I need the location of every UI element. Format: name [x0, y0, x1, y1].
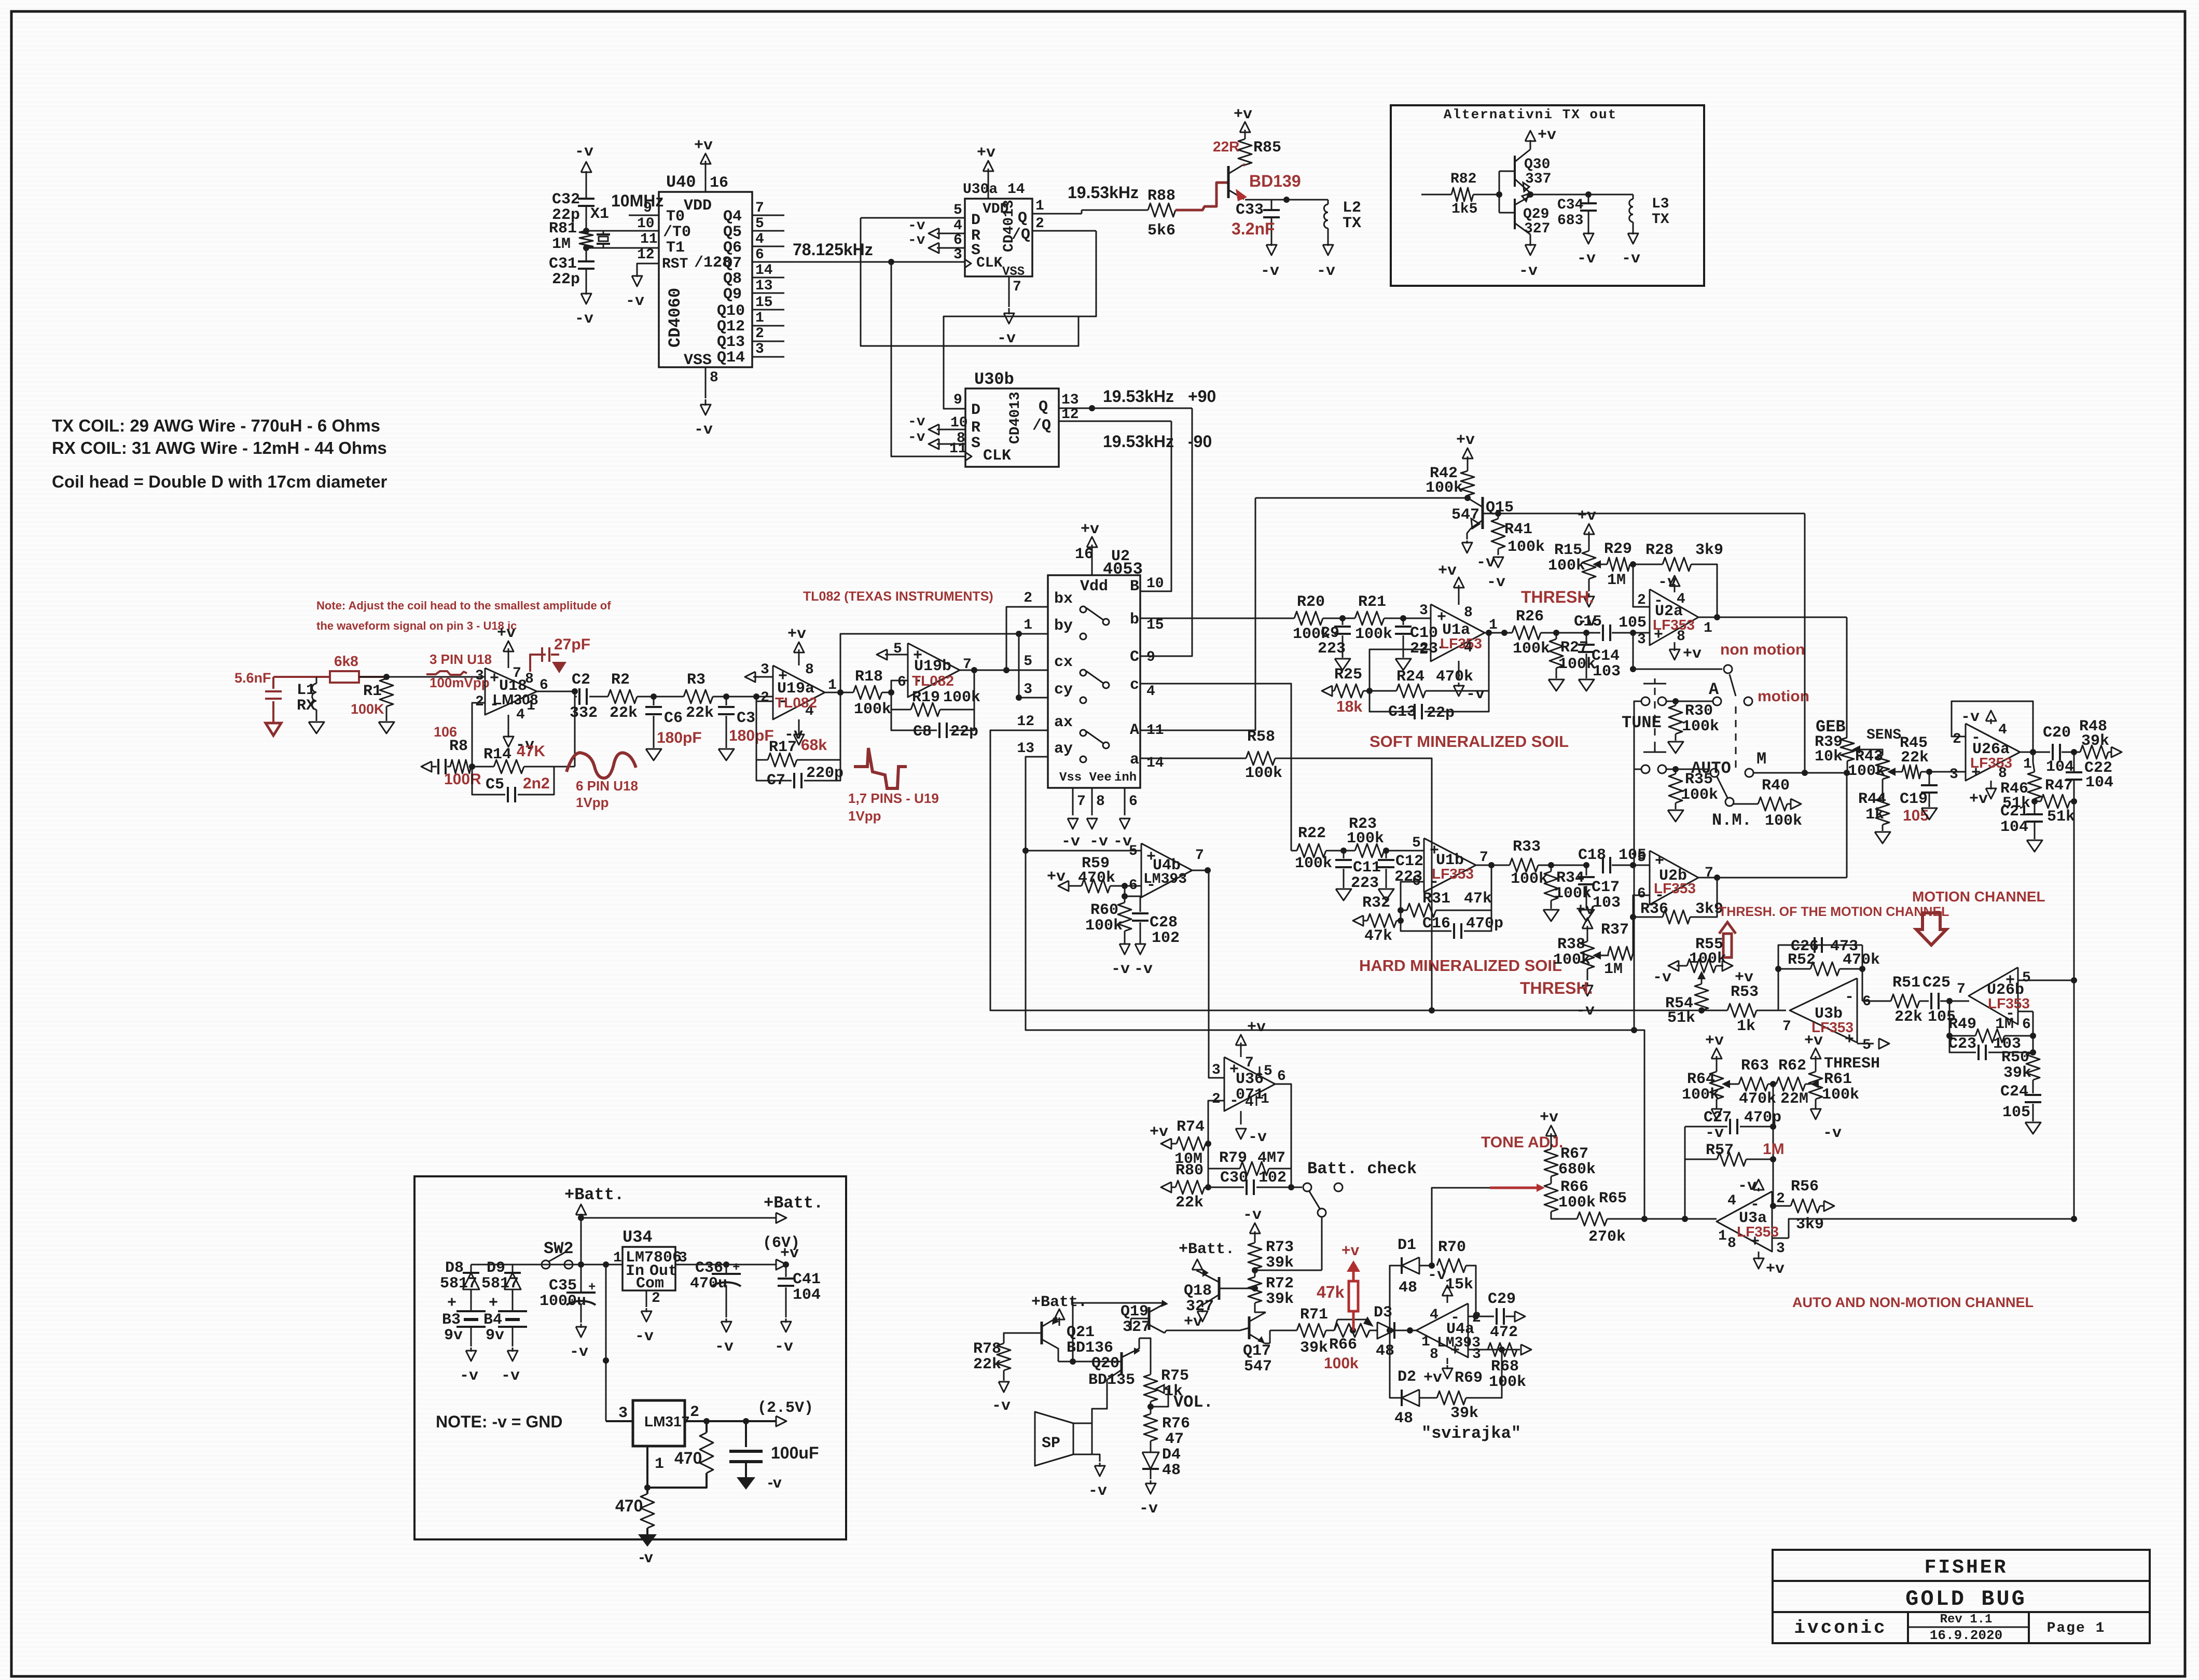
svg-text:C6: C6: [664, 710, 683, 727]
svg-text:7: 7: [1195, 848, 1204, 864]
node R34: [1548, 862, 1554, 868]
svg-text:GOLD BUG: GOLD BUG: [1905, 1587, 2027, 1612]
node R60: [1122, 883, 1128, 889]
svg-text:39k: 39k: [1266, 1254, 1294, 1272]
svg-text:22k: 22k: [1894, 1008, 1923, 1026]
svg-text:-v: -v: [997, 330, 1016, 348]
potentiometer R39 10k GEB: [1841, 738, 1854, 761]
svg-text:-v: -v: [1577, 250, 1596, 268]
svg-text:39k: 39k: [1266, 1290, 1294, 1308]
svg-text:+v: +v: [1540, 1109, 1558, 1127]
svg-text:104: 104: [2085, 774, 2113, 792]
resistor R72 39k: [1248, 1277, 1262, 1303]
svg-text:100k: 100k: [1513, 640, 1550, 658]
potentiometer R55 100k horizontal: [1687, 959, 1716, 973]
speaker SP: [1073, 1423, 1092, 1454]
svg-text:470: 470: [674, 1449, 702, 1467]
svg-text:3: 3: [1024, 682, 1032, 698]
wire R42 to Q15 base node: [1467, 495, 1469, 498]
svg-text:4M7: 4M7: [1257, 1149, 1285, 1167]
switch blade AUTO-NM: [1717, 777, 1727, 798]
switch symbols inside 4053: [1080, 606, 1086, 613]
right arrow R48 out: [2111, 747, 2122, 757]
pushbutton TUNE: [1643, 683, 1666, 685]
svg-text:39k: 39k: [1450, 1405, 1478, 1422]
svg-text:5: 5: [1024, 654, 1032, 670]
svg-text:100k: 100k: [854, 701, 891, 718]
svg-text:(6V): (6V): [763, 1234, 800, 1252]
svg-text:RX COIL: 31 AWG Wire - 12mH -: RX COIL: 31 AWG Wire - 12mH - 44 Ohms: [52, 438, 387, 457]
node cx bus: [1003, 667, 1009, 673]
red up arrow thresh: [1719, 922, 1736, 957]
op-amp U19a TL082: [773, 665, 825, 719]
svg-text:LF353: LF353: [1653, 617, 1695, 633]
svg-text:100k: 100k: [1558, 656, 1596, 673]
-v below C34: [1588, 229, 1589, 234]
svg-text:-v: -v: [908, 218, 925, 234]
wire Q20 collector to R75: [1139, 1338, 1151, 1374]
wire TUNE left down: [1634, 701, 1641, 1030]
svg-text:+v: +v: [1705, 1032, 1724, 1050]
svg-text:1: 1: [1035, 198, 1044, 214]
node C11: [1340, 848, 1347, 854]
-v below R64: [1716, 1099, 1718, 1109]
U19a input wire pin2: [756, 697, 757, 701]
svg-text:7: 7: [1013, 279, 1021, 295]
resistor R41 100k vertical: [1491, 519, 1505, 549]
svg-text:4: 4: [1430, 1307, 1439, 1323]
svg-text:R52: R52: [1788, 951, 1816, 969]
node C14: [1583, 630, 1589, 636]
svg-text:-v: -v: [575, 143, 593, 161]
svg-text:inh: inh: [1114, 771, 1137, 785]
wire A pin11 select: [1140, 498, 1255, 730]
contact motion: [1744, 697, 1752, 705]
node U4a in: [1387, 1327, 1393, 1334]
svg-text:C35: C35: [549, 1277, 577, 1295]
wire a pin14 to R58: [1140, 758, 1246, 759]
svg-text:7: 7: [1245, 1055, 1254, 1071]
svg-text:+v: +v: [1234, 106, 1252, 123]
svg-text:2n2: 2n2: [523, 775, 550, 792]
op-amp U36 071: [1224, 1057, 1275, 1111]
svg-text:ax: ax: [1054, 714, 1073, 731]
wire U4b out down to U36: [1209, 870, 1224, 1078]
svg-text:Q4: Q4: [723, 208, 742, 226]
svg-text:1M: 1M: [552, 235, 571, 253]
svg-text:105: 105: [1903, 807, 1929, 824]
node 78kHz junction: [888, 259, 894, 265]
svg-text:5817: 5817: [481, 1275, 519, 1293]
capacitor C17 103: [1586, 865, 1587, 876]
capacitor C35 1000u: [578, 1261, 584, 1268]
svg-text:VOL.: VOL.: [1173, 1393, 1213, 1412]
svg-text:14: 14: [755, 262, 773, 279]
svg-text:1M: 1M: [1763, 1141, 1785, 1158]
resistor R48 39k: [2080, 745, 2108, 759]
capacitor C30 102: [1208, 1187, 1244, 1188]
svg-text:R65: R65: [1599, 1190, 1627, 1207]
+v above U18 pin7: [508, 648, 509, 668]
svg-text:-v: -v: [460, 1367, 478, 1385]
svg-text:5: 5: [1129, 843, 1138, 859]
resistor R8 100R: [450, 760, 471, 773]
resistor R20 100k: [1294, 612, 1323, 625]
svg-text:1: 1: [828, 677, 837, 693]
svg-text:LF353: LF353: [1432, 866, 1474, 882]
op-amp U2a LF353 inverted: [1650, 589, 1698, 645]
-v below Q29: [1530, 240, 1531, 246]
power supply box outline: [414, 1176, 846, 1539]
U30b /Q pin12 -90 wire: [1059, 421, 1171, 422]
svg-text:TX: TX: [1652, 212, 1669, 228]
svg-text:3: 3: [618, 1405, 628, 1422]
contact AUTO pole: [1710, 769, 1719, 777]
svg-text:2: 2: [755, 326, 764, 342]
transistor Q BD139: [1227, 166, 1230, 198]
resistor R59 470k: [1058, 881, 1069, 891]
svg-text:7: 7: [1705, 865, 1713, 881]
IC U2 4053: [1048, 575, 1140, 788]
svg-text:R36: R36: [1640, 900, 1668, 918]
svg-text:Q18: Q18: [1184, 1282, 1212, 1300]
svg-text:+v: +v: [1683, 645, 1702, 663]
svg-text:BD136: BD136: [1067, 1339, 1113, 1357]
capacitor C18 105: [1602, 857, 1604, 873]
svg-text:47k: 47k: [1317, 1283, 1345, 1301]
svg-text:C5: C5: [486, 776, 504, 794]
svg-text:+v: +v: [1766, 1260, 1785, 1278]
capacitor C24 105: [2032, 1080, 2034, 1093]
U3a pin2 wire: [1772, 1205, 1791, 1207]
svg-text:-v: -v: [1317, 262, 1335, 280]
resistor R73 39k: [1248, 1243, 1262, 1269]
svg-text:+Batt.: +Batt.: [564, 1185, 624, 1204]
svg-text:TX COIL: 29 AWG Wire - 770uH -: TX COIL: 29 AWG Wire - 770uH - 6 Ohms: [52, 416, 380, 435]
-v below C35: [580, 1324, 582, 1328]
svg-text:2: 2: [652, 1290, 660, 1307]
svg-text:2: 2: [1776, 1191, 1785, 1207]
svg-text:+: +: [447, 1295, 457, 1312]
svg-text:337: 337: [1525, 171, 1551, 187]
svg-text:LF353: LF353: [1654, 880, 1696, 896]
node D1 R70: [1429, 1262, 1435, 1269]
svg-text:R76: R76: [1162, 1415, 1190, 1433]
svg-text:C16: C16: [1422, 915, 1450, 933]
svg-text:6: 6: [2022, 1017, 2031, 1033]
resistor R78 22k: [997, 1343, 1011, 1370]
svg-text:5: 5: [953, 202, 962, 218]
wire ay down to U4b pin5: [1026, 757, 1644, 1219]
node C25 out: [1946, 998, 1953, 1004]
-v above U4a: [1447, 1298, 1448, 1303]
U3a pin3 wire: [1772, 1238, 1789, 1239]
svg-text:C13: C13: [1388, 703, 1416, 721]
svg-text:100k: 100k: [1558, 1194, 1596, 1212]
svg-text:(2.5V): (2.5V): [757, 1399, 813, 1417]
svg-text:CLK: CLK: [983, 447, 1011, 465]
wire U2a out: [1698, 617, 1847, 618]
wire +90 down to 4053 C select: [1140, 408, 1192, 656]
svg-text:R51: R51: [1892, 974, 1920, 992]
U30a /Q pin2 wire: [1032, 230, 1096, 232]
capacitor 106 red: [437, 759, 439, 774]
capacitor C26 473: [1814, 937, 1816, 953]
op-amp U4b LM393: [1141, 843, 1192, 897]
svg-text:100k: 100k: [1085, 917, 1123, 935]
svg-text:the waveform signal on pi: the waveform signal on pin 3 - U18 ic: [316, 619, 517, 632]
wire TUNE to A pole: [1666, 701, 1713, 702]
svg-text:68k: 68k: [801, 737, 827, 754]
svg-text:R56: R56: [1791, 1178, 1819, 1196]
rheostat R75 1k VOL: [1144, 1374, 1157, 1401]
U19b pin5 left arrow: [885, 654, 908, 656]
svg-text:5.6nF: 5.6nF: [234, 670, 271, 686]
svg-text:1k5: 1k5: [1451, 201, 1477, 217]
switch blade A: [1730, 674, 1736, 696]
svg-text:U30b: U30b: [974, 370, 1014, 389]
rheostat R66 100k audio: [1334, 1324, 1370, 1337]
wire R66 bottom to R65: [1551, 1212, 1577, 1219]
svg-text:100k: 100k: [1295, 855, 1332, 872]
pushbutton AUTO: [1643, 752, 1666, 753]
U3b pin5 arrow: [1857, 1043, 1874, 1045]
node C3: [723, 693, 729, 700]
wire LM317 out: [685, 1420, 776, 1422]
svg-text:223: 223: [1318, 640, 1346, 658]
svg-text:22k: 22k: [1901, 749, 1929, 767]
transistor Q15 547: [1468, 498, 1482, 507]
capacitor C21 104: [2034, 801, 2036, 813]
wire feedback to next stage: [554, 766, 575, 768]
wire Q15 bus down to M row: [1802, 770, 1808, 776]
svg-text:R81: R81: [549, 220, 577, 238]
svg-text:7: 7: [1782, 1019, 1791, 1035]
capacitor C6 180pF: [653, 697, 655, 705]
svg-text:R24: R24: [1396, 668, 1424, 686]
svg-text:1000u: 1000u: [540, 1293, 586, 1310]
IC U34 LM7806: [623, 1247, 675, 1290]
svg-text:3: 3: [1419, 603, 1428, 619]
resistor R79 4M7: [1208, 1169, 1240, 1187]
wire U4b out: [1192, 870, 1208, 871]
node C17: [1583, 862, 1589, 868]
svg-text:+v: +v: [1081, 521, 1099, 538]
U19b pin6 wire: [891, 681, 908, 692]
resistor R34 100k vertical: [1544, 871, 1558, 900]
wire adj to pin1: [647, 1473, 707, 1488]
svg-text:N.M.: N.M.: [1712, 811, 1752, 830]
svg-text:R79: R79: [1219, 1149, 1247, 1167]
node R25 R24: [1366, 688, 1373, 694]
svg-text:R44: R44: [1858, 790, 1886, 808]
svg-text:/T0: /T0: [663, 224, 691, 241]
svg-text:R1: R1: [363, 683, 382, 700]
svg-text:1: 1: [2023, 756, 2032, 772]
svg-text:R75: R75: [1161, 1367, 1189, 1385]
svg-text:19.53kHz: 19.53kHz: [1103, 432, 1174, 451]
svg-text:+: +: [1750, 1233, 1760, 1251]
svg-text:15: 15: [755, 295, 773, 311]
resistor R28 3k9: [1633, 564, 1663, 565]
-v below B4: [512, 1348, 514, 1352]
svg-text:100k: 100k: [1511, 870, 1548, 888]
resistor R85 22R: [1238, 139, 1252, 165]
red wire tone wiper: [1490, 1187, 1537, 1189]
+v below U4a: [1447, 1358, 1448, 1364]
wire to R73 junction: [1255, 1270, 1322, 1271]
svg-text:R73: R73: [1266, 1239, 1294, 1256]
capacitor C9 223: [1342, 618, 1344, 625]
-v below U18 pin4: [508, 715, 509, 732]
svg-text:18k: 18k: [1336, 698, 1362, 715]
wire R28 node down to U2a pin2: [1633, 564, 1650, 607]
node 47k red: [1350, 1327, 1356, 1334]
svg-text:-v: -v: [1487, 574, 1505, 591]
svg-text:R: R: [971, 419, 980, 437]
-v below D4: [1150, 1480, 1152, 1484]
svg-text:-v: -v: [1622, 250, 1640, 268]
node U2b pin5: [1630, 862, 1636, 868]
U30a pin4 R -v: [937, 233, 965, 234]
+v above R61: [1815, 1056, 1817, 1072]
wire U18 out: [537, 691, 575, 692]
left arrow input 106: [421, 761, 432, 772]
-v below U36: [1240, 1111, 1242, 1124]
-v below U19a: [798, 719, 800, 735]
potentiometer R15 100k: [1582, 551, 1596, 579]
svg-text:R47: R47: [2045, 777, 2073, 795]
svg-text:1: 1: [613, 1250, 622, 1266]
diode D2 48: [1401, 1390, 1403, 1406]
svg-text:1M: 1M: [1607, 572, 1626, 589]
svg-text:TL082 (TEXAS INSTRUMENTS): TL082 (TEXAS INSTRUMENTS): [803, 589, 993, 604]
capacitor C3 180pF: [726, 697, 727, 705]
svg-text:Q12: Q12: [717, 318, 745, 336]
svg-text:100k: 100k: [1822, 1086, 1859, 1104]
U30b pin10 R -v: [937, 429, 965, 431]
svg-text:CD4013: CD4013: [1007, 392, 1024, 444]
wire U2b out: [1698, 877, 1847, 879]
diode D8 5817: [463, 1273, 479, 1289]
svg-text:C25: C25: [1923, 974, 1951, 992]
svg-text:THRESH.: THRESH.: [1520, 979, 1593, 997]
svg-text:6: 6: [953, 232, 962, 248]
wire by into pin: [1019, 633, 1048, 635]
svg-text:cy: cy: [1054, 681, 1073, 699]
svg-text:R63: R63: [1741, 1057, 1769, 1075]
svg-text:LF353: LF353: [1440, 635, 1482, 651]
svg-text:-v: -v: [1061, 833, 1080, 851]
capacitor C14 103: [1586, 633, 1587, 643]
svg-text:motion: motion: [1758, 688, 1809, 705]
U19a pin3 left arrow: [753, 676, 773, 678]
svg-text:C24: C24: [2000, 1083, 2028, 1101]
+v above R64: [1716, 1056, 1718, 1072]
capacitor C5 2n2: [472, 767, 505, 795]
svg-text:R33: R33: [1513, 838, 1541, 856]
svg-text:-v: -v: [570, 1343, 588, 1361]
ground below C9: [1335, 659, 1350, 670]
-v above U2a: [1674, 584, 1676, 592]
feedback R17 68k: [756, 701, 768, 760]
svg-text:R64: R64: [1687, 1071, 1715, 1088]
U3b feedback C26 R52: [1778, 945, 1862, 1010]
battery rail: [471, 1264, 623, 1266]
svg-text:7: 7: [513, 665, 521, 682]
svg-text:+: +: [732, 1261, 740, 1275]
svg-text:C3: C3: [737, 710, 755, 727]
wire U19a out: [825, 692, 853, 693]
right arrow C29 out: [1515, 1311, 1525, 1322]
wire U1a out: [1485, 632, 1512, 634]
ground below 470: [646, 1528, 648, 1534]
red +v above 47k: [1347, 1260, 1360, 1272]
ground below R30: [1675, 734, 1677, 741]
svg-text:-v: -v: [715, 1338, 734, 1356]
svg-text:-v: -v: [1653, 969, 1671, 987]
resistor 6k8 red box: [330, 671, 359, 683]
svg-text:CD4060: CD4060: [666, 288, 685, 348]
svg-text:47: 47: [1165, 1431, 1184, 1448]
svg-text:4: 4: [953, 218, 962, 234]
ground below R27: [1548, 679, 1564, 691]
svg-text:-v: -v: [1658, 574, 1677, 591]
svg-text:470: 470: [615, 1496, 643, 1515]
svg-text:R71: R71: [1300, 1306, 1328, 1324]
svg-text:+: +: [588, 1281, 596, 1295]
svg-text:3: 3: [1212, 1062, 1221, 1078]
svg-text:3: 3: [1949, 767, 1958, 783]
svg-text:9v: 9v: [444, 1327, 463, 1344]
resistor 470 bottom: [641, 1494, 654, 1528]
wire +Batt right arrow: [581, 1217, 776, 1219]
R61 wiper: [1810, 1080, 1819, 1088]
svg-text:b: b: [1130, 611, 1139, 629]
resistor R31 47k: [1401, 910, 1407, 911]
svg-text:13: 13: [755, 278, 773, 294]
+v above R85: [1244, 130, 1246, 139]
resistor R21 100k: [1355, 612, 1384, 625]
capacitor C28 102: [1125, 896, 1140, 912]
svg-text:R28: R28: [1645, 542, 1674, 559]
svg-text:+v: +v: [497, 624, 516, 642]
svg-text:1: 1: [1261, 1091, 1269, 1107]
capacitor C12 223: [1386, 851, 1387, 858]
svg-text:270k: 270k: [1588, 1228, 1626, 1246]
capacitor C33 3.2nF: [1271, 200, 1273, 209]
svg-text:7: 7: [755, 200, 764, 216]
capacitor C20 104: [2052, 744, 2054, 760]
svg-text:VSS: VSS: [1002, 265, 1025, 279]
svg-text:7: 7: [1479, 850, 1488, 866]
svg-text:Q9: Q9: [723, 286, 742, 303]
svg-text:D: D: [971, 212, 980, 229]
wire U19a out up to by pin: [840, 634, 1019, 692]
-v above R73: [1254, 1231, 1256, 1243]
svg-text:C10: C10: [1410, 624, 1438, 642]
svg-text:6k8: 6k8: [334, 653, 358, 669]
svg-text:7: 7: [1077, 794, 1086, 810]
resistor R40 100k: [1758, 797, 1787, 811]
+v right of R55: [1716, 965, 1723, 967]
node C12: [1383, 848, 1389, 854]
node crystal top: [583, 228, 589, 234]
resistor R60 100k: [1118, 903, 1131, 931]
svg-text:+v: +v: [1184, 1313, 1202, 1331]
svg-text:15: 15: [1146, 617, 1164, 633]
wire U4a in: [1410, 1330, 1416, 1331]
